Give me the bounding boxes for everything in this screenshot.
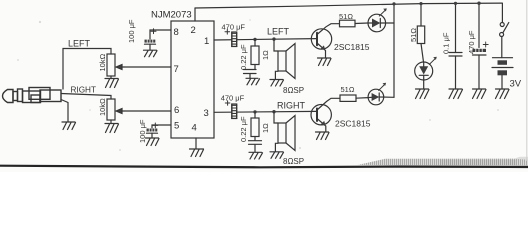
ground (right zobel) — [249, 152, 263, 159]
ground (C2) — [146, 138, 160, 146]
svg-text:3: 3 — [204, 108, 209, 119]
svg-text:7: 7 — [174, 64, 179, 75]
transistor Q2 2SC1815 (right) — [311, 98, 340, 131]
ground (right pot) — [105, 124, 119, 133]
svg-text:3V: 3V — [510, 79, 522, 90]
svg-text:RIGHT: RIGHT — [71, 86, 96, 95]
wire pin4 to ground — [195, 138, 197, 149]
svg-text:8: 8 — [174, 27, 179, 38]
battery BT1 3V — [492, 58, 513, 89]
capacitor C8 470uF (supply) — [478, 3, 480, 47]
svg-text:51Ω: 51Ω — [409, 28, 418, 42]
ground (left speaker) — [270, 80, 284, 87]
potentiometer VR2 10kohm (right) — [107, 99, 124, 123]
switch S1 — [500, 3, 509, 57]
svg-text:2SC1815: 2SC1815 — [334, 42, 370, 52]
svg-text:470 μF: 470 μF — [467, 30, 476, 54]
svg-text:RIGHT: RIGHT — [277, 101, 306, 111]
wire pot wiper to pin7 — [124, 66, 171, 68]
svg-text:0.1 μF: 0.1 μF — [442, 32, 451, 54]
plug J1 (stereo mini plug) — [3, 88, 62, 103]
svg-text:2: 2 — [191, 25, 196, 36]
potentiometer VR1 10kohm (left) — [107, 54, 124, 79]
svg-text:LEFT: LEFT — [267, 27, 290, 37]
node (zobel junction right) — [253, 110, 256, 113]
wire plug sleeve to ground — [61, 100, 68, 122]
wire LED feed riser — [393, 4, 395, 97]
capacitor C3 470uF (left output, series electrolytic) — [232, 32, 237, 47]
ground (Q2 emitter) — [316, 132, 330, 140]
svg-text:470 μF: 470 μF — [222, 23, 246, 32]
ground (plug) — [62, 122, 76, 130]
speaker SP2 8ohm (right) — [274, 112, 295, 152]
resistor R5 51ohm (pilot LED) — [420, 4, 422, 26]
node (zobel junction left) — [253, 38, 256, 41]
right page edge — [526, 0, 527, 161]
faint scan speckles — [17, 19, 499, 151]
svg-text:470 μF: 470 μF — [221, 94, 245, 103]
capacitor C7 0.1uF — [455, 3, 457, 52]
wire pin1 output (LEFT channel) — [214, 39, 316, 40]
svg-text:0.22 μF: 0.22 μF — [239, 116, 248, 142]
ground (C8) — [473, 89, 487, 99]
svg-text:0.22 μF: 0.22 μF — [239, 44, 248, 70]
ground (left pot) — [105, 79, 119, 88]
op-amp U1 NJM2073 (IC body) — [171, 21, 214, 138]
svg-text:2SC1815: 2SC1815 — [335, 119, 371, 129]
resistor R3 1ohm (right zobel) — [254, 112, 256, 118]
speaker SP1 8ohm (left) — [274, 39, 295, 79]
svg-text:10kΩ: 10kΩ — [98, 98, 107, 116]
node (right speaker junction) — [272, 110, 275, 113]
ground (right speaker) — [270, 152, 284, 159]
wire RIGHT net from plug to volume pot — [61, 94, 111, 100]
capacitor C4 470uF (right output, series electrolytic) — [232, 104, 237, 119]
capacitor C6 0.22uF (right zobel) — [249, 137, 262, 152]
ground (Q1 emitter) — [318, 58, 332, 66]
ground (left zobel) — [246, 78, 260, 85]
capacitor C5 0.22uF (left zobel) — [244, 65, 257, 78]
LED D2 (right) — [368, 83, 394, 105]
wire pot wiper to pin6 — [124, 110, 171, 112]
LED D1 (left) — [368, 8, 394, 31]
resistor R2 51ohm (left LED) — [340, 20, 356, 27]
svg-text:4: 4 — [192, 123, 197, 134]
svg-text:100 μF: 100 μF — [138, 119, 147, 143]
ground (pilot LED) — [416, 89, 430, 99]
svg-text:NJM2073: NJM2073 — [151, 10, 192, 21]
resistor R4 51ohm (right LED) — [340, 95, 356, 101]
svg-text:100 μF: 100 μF — [127, 19, 136, 43]
svg-text:1Ω: 1Ω — [261, 123, 270, 133]
svg-text:8ΩSP: 8ΩSP — [283, 157, 304, 166]
wire V+ rail — [195, 3, 502, 8]
wire pin2 to V+ rail — [194, 8, 196, 21]
node (left speaker junction) — [272, 37, 275, 40]
svg-text:5: 5 — [174, 121, 179, 132]
wire pin3 output (RIGHT channel) — [214, 110, 316, 113]
ground (pin4) — [190, 149, 204, 157]
svg-text:1: 1 — [204, 36, 209, 47]
svg-text:6: 6 — [174, 105, 179, 116]
svg-text:51Ω: 51Ω — [341, 85, 355, 94]
transistor Q1 2SC1815 (left) — [311, 24, 339, 58]
ground (battery) — [496, 89, 510, 99]
svg-text:10kΩ: 10kΩ — [98, 53, 107, 71]
capacitor C1 100uF (pin8 bypass) — [145, 29, 172, 50]
svg-text:1Ω: 1Ω — [261, 50, 270, 60]
page curl shadow bar — [358, 159, 528, 166]
svg-text:51Ω: 51Ω — [339, 12, 353, 21]
ground (C1) — [144, 50, 158, 57]
capacitor C2 100uF (pin5 bypass) — [147, 123, 172, 138]
svg-text:LEFT: LEFT — [68, 39, 91, 49]
resistor R1 1ohm (left zobel) — [254, 39, 256, 46]
page bottom edge line — [0, 165, 528, 169]
LED D3 (pilot) — [415, 44, 437, 81]
wire LEFT net from plug to volume pot — [63, 49, 111, 90]
svg-text:8ΩSP: 8ΩSP — [283, 86, 304, 95]
ground (C7) — [449, 89, 463, 99]
